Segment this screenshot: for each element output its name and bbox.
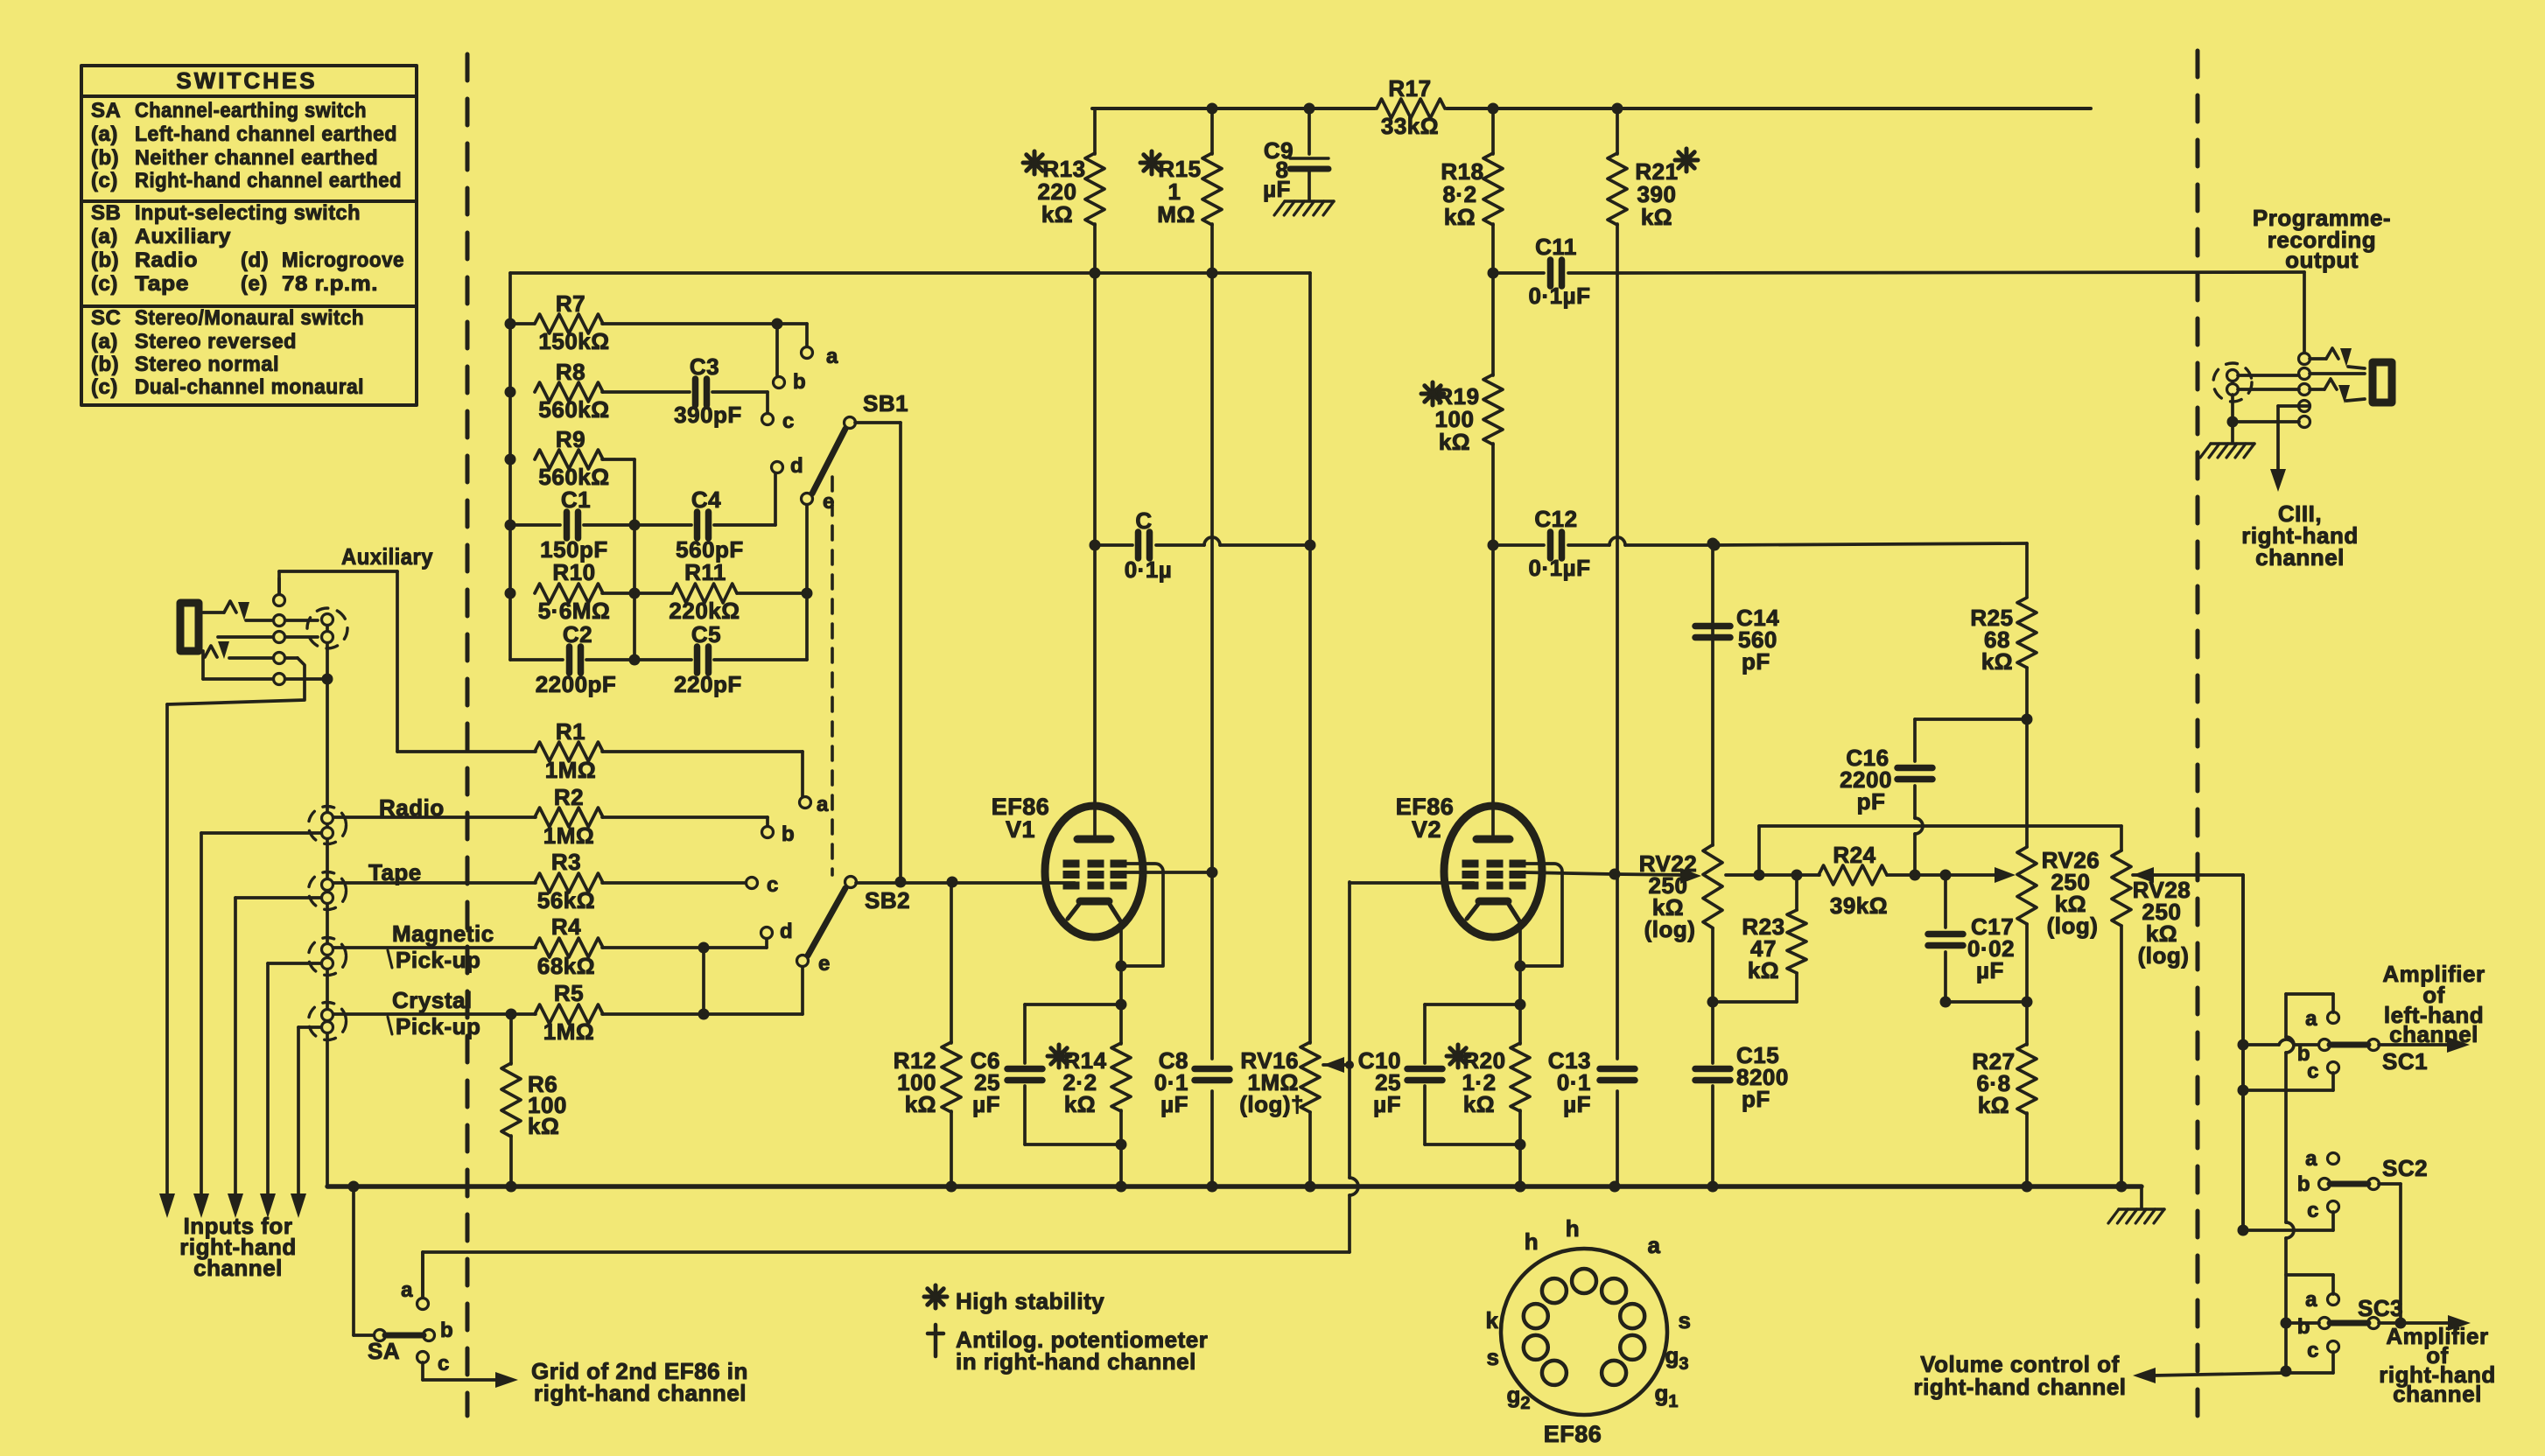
svg-text:56kΩ: 56kΩ (537, 887, 595, 913)
svg-text:Right-hand channel earthed: Right-hand channel earthed (135, 169, 402, 192)
svg-text:V2: V2 (1412, 816, 1441, 843)
svg-text:a: a (826, 345, 838, 368)
svg-text:R4: R4 (551, 913, 581, 940)
svg-text:kΩ: kΩ (1444, 204, 1476, 230)
svg-text:C12: C12 (1534, 506, 1577, 532)
svg-text:a: a (1648, 1232, 1661, 1258)
svg-text:µF: µF (1563, 1091, 1591, 1117)
svg-text:R17: R17 (1388, 75, 1431, 101)
svg-text:C11: C11 (1535, 234, 1577, 260)
svg-text:(c): (c) (91, 169, 118, 192)
svg-text:Stereo reversed: Stereo reversed (135, 330, 297, 353)
svg-text:MΩ: MΩ (1157, 201, 1195, 227)
svg-text:a: a (2305, 1288, 2317, 1312)
svg-text:5·6MΩ: 5·6MΩ (538, 598, 611, 624)
svg-text:Radio: Radio (379, 794, 445, 821)
svg-text:c: c (438, 1352, 450, 1375)
svg-text:output: output (2285, 247, 2359, 273)
svg-text:R5: R5 (554, 980, 584, 1006)
svg-text:220pF: 220pF (674, 671, 742, 697)
svg-text:d: d (790, 454, 803, 478)
svg-text:a: a (2305, 1147, 2317, 1171)
svg-text:h: h (1525, 1228, 1539, 1255)
svg-text:k: k (1486, 1307, 1499, 1333)
svg-text:C2: C2 (563, 621, 592, 647)
svg-text:e: e (823, 490, 835, 514)
svg-text:Channel-earthing switch: Channel-earthing switch (135, 99, 367, 122)
svg-text:(c): (c) (91, 375, 118, 399)
svg-text:68kΩ: 68kΩ (537, 953, 595, 979)
svg-text:kΩ: kΩ (905, 1091, 936, 1117)
svg-text:0·1µ: 0·1µ (1125, 556, 1173, 583)
svg-text:Stereo/Monaural switch: Stereo/Monaural switch (135, 306, 364, 330)
svg-text:(d): (d) (241, 248, 269, 272)
svg-text:C1: C1 (561, 486, 591, 513)
svg-text:R10: R10 (552, 559, 595, 585)
svg-text:Dual-channel monaural: Dual-channel monaural (135, 375, 364, 399)
svg-text:R3: R3 (551, 849, 581, 875)
svg-text:Auxiliary: Auxiliary (135, 225, 231, 248)
svg-text:c: c (767, 873, 779, 897)
svg-text:b: b (793, 370, 806, 394)
svg-text:kΩ: kΩ (1981, 648, 2013, 675)
svg-text:kΩ: kΩ (1463, 1091, 1495, 1117)
svg-text:C4: C4 (691, 486, 721, 513)
svg-text:channel: channel (193, 1255, 283, 1281)
svg-text:Tape: Tape (135, 272, 189, 296)
svg-text:(a): (a) (91, 122, 118, 146)
svg-text:Input-selecting switch: Input-selecting switch (135, 201, 361, 225)
svg-text:µF: µF (1976, 957, 2004, 983)
svg-text:0·1µF: 0·1µF (1529, 555, 1591, 581)
svg-text:(b): (b) (91, 353, 119, 376)
svg-text:EF86: EF86 (1544, 1421, 1602, 1447)
svg-text:e: e (818, 952, 831, 976)
svg-text:1MΩ: 1MΩ (545, 757, 596, 783)
svg-text:a: a (817, 793, 829, 816)
svg-text:channel: channel (2393, 1381, 2482, 1407)
svg-text:SA: SA (368, 1338, 400, 1364)
svg-text:2200pF: 2200pF (536, 671, 617, 697)
svg-text:150kΩ: 150kΩ (538, 328, 609, 354)
svg-text:SC1: SC1 (2382, 1048, 2428, 1074)
svg-text:(c): (c) (91, 272, 118, 296)
svg-text:kΩ: kΩ (1439, 429, 1470, 455)
svg-text:(log): (log) (1644, 916, 1696, 942)
svg-text:b: b (782, 822, 795, 846)
svg-text:right-hand channel: right-hand channel (534, 1380, 747, 1406)
svg-text:kΩ: kΩ (1748, 957, 1779, 983)
svg-text:R9: R9 (556, 426, 585, 452)
svg-text:SB2: SB2 (865, 887, 910, 913)
svg-text:SA: SA (91, 99, 121, 122)
svg-text:(b): (b) (91, 248, 119, 272)
svg-text:c: c (2307, 1199, 2319, 1222)
svg-text:Neither channel earthed: Neither channel earthed (135, 146, 378, 170)
svg-text:Radio: Radio (135, 248, 198, 272)
svg-text:kΩ: kΩ (1041, 201, 1073, 227)
svg-text:1MΩ: 1MΩ (543, 1018, 594, 1045)
svg-text:Pick-up: Pick-up (396, 1013, 480, 1039)
svg-text:Stereo normal: Stereo normal (135, 353, 279, 376)
svg-text:78 r.p.m.: 78 r.p.m. (282, 272, 378, 296)
svg-text:a: a (2305, 1007, 2317, 1031)
svg-text:R1: R1 (556, 718, 585, 745)
svg-text:560kΩ: 560kΩ (538, 396, 609, 423)
svg-text:µF: µF (1160, 1091, 1188, 1117)
svg-text:pF: pF (1857, 788, 1886, 815)
svg-text:µF: µF (1263, 176, 1291, 202)
svg-text:R8: R8 (556, 359, 585, 385)
svg-text:Magnetic: Magnetic (392, 920, 494, 947)
svg-text:Left-hand channel earthed: Left-hand channel earthed (135, 122, 397, 146)
svg-text:c: c (2307, 1060, 2319, 1083)
svg-text:s: s (1679, 1307, 1692, 1333)
svg-text:Tape: Tape (368, 859, 422, 885)
svg-text:C3: C3 (690, 353, 719, 380)
svg-text:SC2: SC2 (2382, 1155, 2428, 1181)
svg-text:33kΩ: 33kΩ (1381, 113, 1439, 139)
svg-text:39kΩ: 39kΩ (1830, 892, 1888, 919)
svg-text:SB1: SB1 (863, 390, 908, 416)
svg-text:(a): (a) (91, 330, 118, 353)
svg-text:b: b (2297, 1172, 2310, 1196)
svg-text:1MΩ: 1MΩ (543, 822, 594, 849)
svg-text:kΩ: kΩ (528, 1113, 559, 1139)
svg-text:390pF: 390pF (674, 402, 742, 428)
svg-text:right-hand channel: right-hand channel (1914, 1374, 2127, 1400)
svg-text:SC: SC (91, 306, 121, 330)
svg-text:(a): (a) (91, 225, 118, 248)
svg-text:kΩ: kΩ (1064, 1091, 1096, 1117)
svg-text:High stability: High stability (956, 1288, 1104, 1314)
svg-text:(e): (e) (241, 272, 268, 296)
svg-text:SB: SB (91, 201, 121, 225)
svg-text:kΩ: kΩ (1641, 204, 1672, 230)
svg-text:C: C (1135, 507, 1152, 534)
svg-text:(b): (b) (91, 146, 119, 170)
svg-text:220kΩ: 220kΩ (669, 598, 740, 624)
svg-text:c: c (2307, 1339, 2319, 1362)
svg-text:C5: C5 (691, 621, 721, 647)
svg-text:(log): (log) (2047, 913, 2099, 939)
svg-text:µF: µF (1373, 1091, 1401, 1117)
svg-text:h: h (1566, 1215, 1580, 1242)
svg-text:c: c (782, 409, 795, 433)
svg-text:0·1µF: 0·1µF (1529, 283, 1591, 309)
svg-text:Crystal: Crystal (392, 987, 473, 1013)
svg-text:pF: pF (1742, 1086, 1770, 1112)
svg-text:(log)†: (log)† (1239, 1091, 1304, 1117)
svg-text:a: a (401, 1278, 413, 1302)
svg-text:Pick-up: Pick-up (396, 947, 480, 973)
svg-text:d: d (780, 920, 793, 943)
svg-text:V1: V1 (1006, 816, 1035, 843)
svg-text:pF: pF (1742, 648, 1770, 675)
svg-text:b: b (440, 1319, 453, 1342)
svg-text:kΩ: kΩ (1978, 1092, 2009, 1118)
svg-text:R11: R11 (684, 559, 726, 585)
svg-text:SWITCHES: SWITCHES (176, 67, 317, 94)
svg-text:µF: µF (972, 1091, 1000, 1117)
svg-text:channel: channel (2389, 1021, 2478, 1047)
svg-text:R2: R2 (554, 784, 584, 810)
svg-text:s: s (1487, 1344, 1500, 1370)
svg-text:channel: channel (2255, 544, 2345, 570)
svg-text:Auxiliary: Auxiliary (341, 543, 433, 570)
svg-text:SC3: SC3 (2358, 1295, 2403, 1321)
svg-text:R7: R7 (556, 290, 585, 317)
svg-text:b: b (2297, 1315, 2310, 1339)
svg-text:Microgroove: Microgroove (282, 248, 404, 272)
svg-text:R24: R24 (1833, 842, 1875, 868)
svg-text:(log): (log) (2138, 942, 2190, 969)
svg-text:in right-hand channel: in right-hand channel (956, 1348, 1196, 1375)
